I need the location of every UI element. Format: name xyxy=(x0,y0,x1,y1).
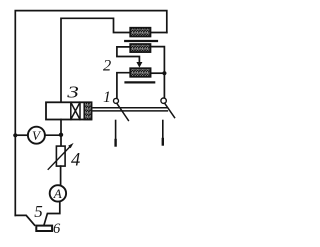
wire: electromagnet bottom lead down to V-wire junction xyxy=(60,120,62,147)
junction dot on left bus at voltmeter tap xyxy=(13,133,17,137)
voltmeter V xyxy=(28,127,45,144)
wire: R2 right lead down to switch xyxy=(151,47,165,98)
svg-text:5: 5 xyxy=(34,202,43,221)
resistor R3 (bottom box of bank 2) xyxy=(130,68,150,77)
right switch blade xyxy=(165,103,175,117)
electromagnet armature cell (speckled) xyxy=(84,102,91,119)
contact plate under R1 xyxy=(125,40,157,42)
svg-text:4: 4 xyxy=(71,151,80,171)
wire: R3 right lead xyxy=(151,72,165,74)
electromagnet 3 body xyxy=(46,102,92,119)
svg-text:1: 1 xyxy=(103,89,111,106)
ammeter A xyxy=(50,185,66,201)
right switch lower stub xyxy=(162,121,164,141)
selector arrowhead pointing at R3 xyxy=(136,62,142,68)
wire: R2 left lead into selector arrow xyxy=(117,47,139,62)
resistor R2 (middle box of bank 2) xyxy=(130,44,150,52)
rheostat 4 body xyxy=(56,146,65,166)
wire: R1 right lead to outer right drop xyxy=(150,32,166,34)
wire: rheostat to ammeter xyxy=(60,166,62,184)
svg-text:6: 6 xyxy=(53,221,61,237)
svg-text:3: 3 xyxy=(66,83,79,102)
wire: ammeter down to crucible right funnel xyxy=(44,202,60,225)
left switch lower stub xyxy=(115,121,117,142)
resistor R1 (top box of bank 2) xyxy=(130,28,150,37)
junction dot right bus / R3 xyxy=(162,71,166,75)
svg-text:A: A xyxy=(53,186,62,201)
wire: outer loop top + left + right drop xyxy=(15,11,167,135)
wire: R1 left lead, up and across to coil (inner top wire) xyxy=(61,18,130,102)
plunger rod (double line) xyxy=(93,107,167,109)
crucible dish 6 xyxy=(36,226,52,231)
left switch pivot circle xyxy=(114,98,119,103)
contact plate under R3 xyxy=(126,81,155,83)
wire: voltmeter right lead xyxy=(46,134,62,136)
wire: voltmeter left lead xyxy=(15,134,27,136)
right switch pivot circle xyxy=(161,98,166,103)
left switch blade xyxy=(117,103,129,120)
svg-text:2: 2 xyxy=(103,57,111,74)
wire: R3 left lead down to left switch xyxy=(117,73,130,98)
wire: left bus down to crucible left funnel xyxy=(15,215,34,225)
junction dot at V wire / magnet lead xyxy=(59,133,63,137)
wire: outer left vertical lower part xyxy=(14,135,16,215)
rheostat diagonal arrow xyxy=(48,146,70,169)
electromagnet crossed cell xyxy=(71,102,80,119)
